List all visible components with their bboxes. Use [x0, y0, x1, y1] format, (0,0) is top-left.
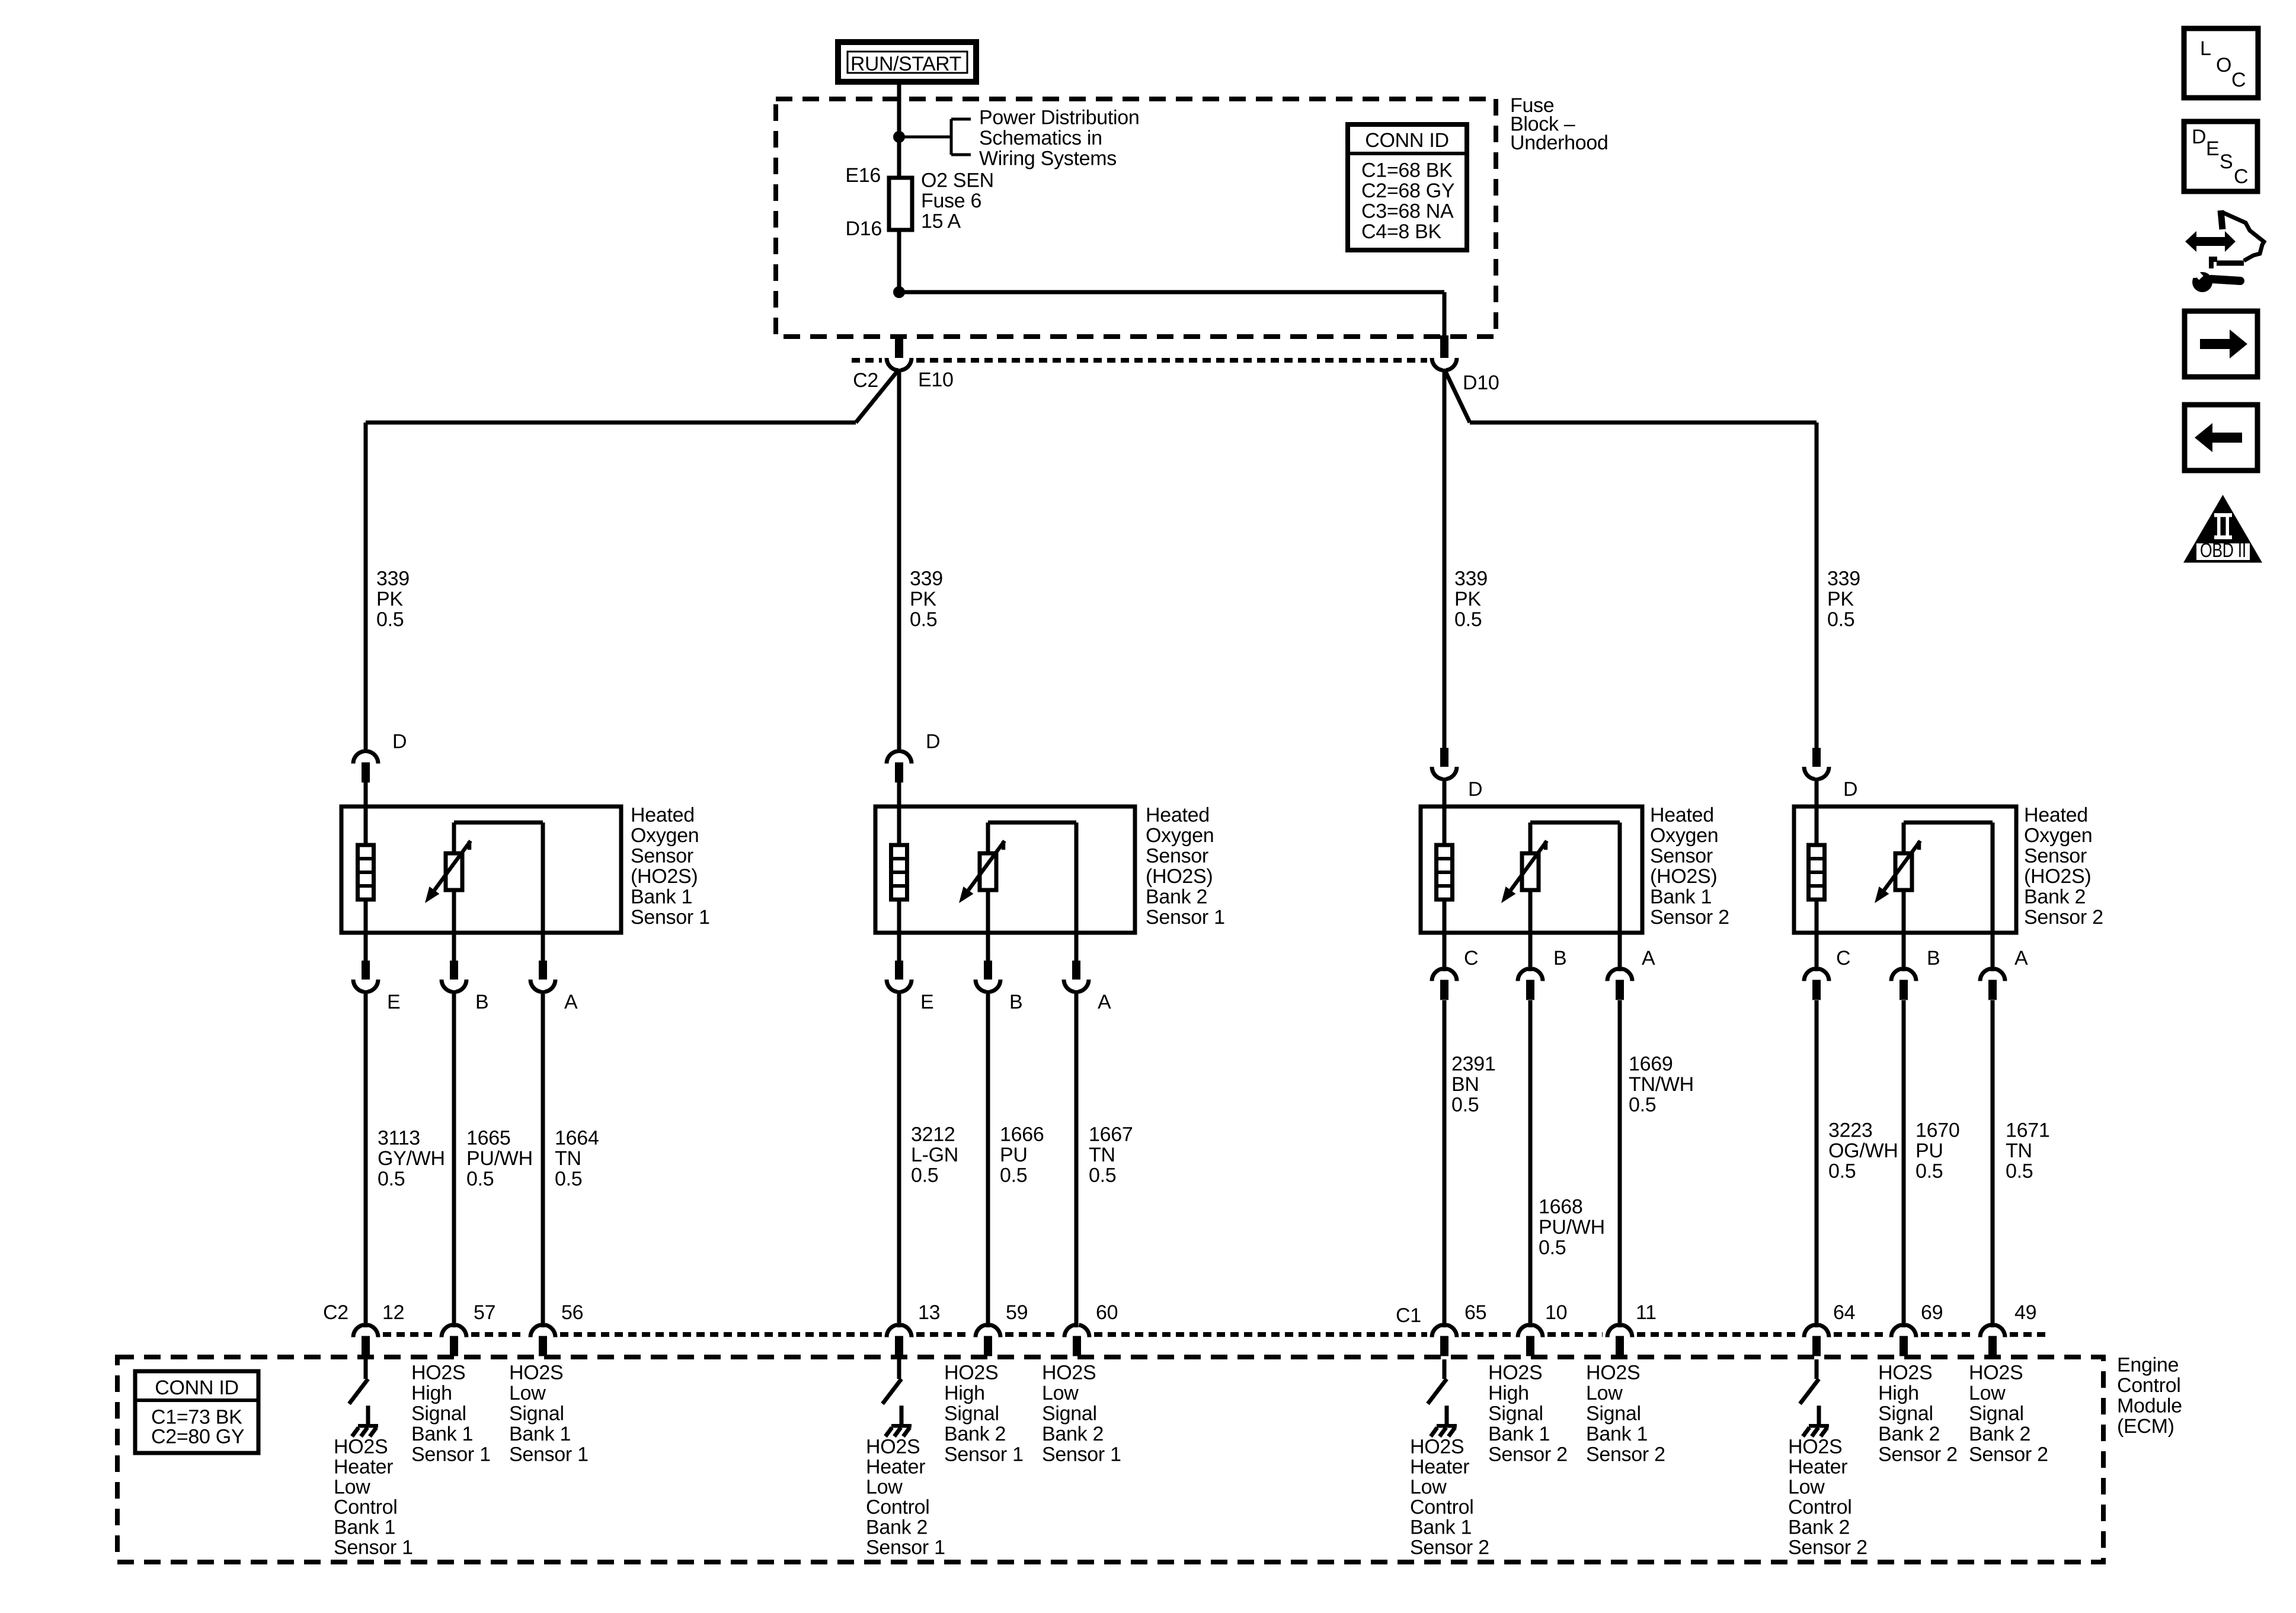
label B: [475, 991, 488, 1013]
svg-text:(HO2S): (HO2S): [631, 865, 698, 888]
svg-text:11: 11: [1636, 1301, 1657, 1324]
svg-text:HO2S: HO2S: [411, 1362, 465, 1384]
label C1: [1396, 1304, 1421, 1327]
svg-text:Sensor 2: Sensor 2: [1410, 1537, 1489, 1559]
svg-text:Bank 2: Bank 2: [1969, 1423, 2030, 1445]
svg-text:Oxygen: Oxygen: [2024, 824, 2092, 847]
connector pin E sensor1: [353, 933, 378, 1327]
svg-text:CONN ID: CONN ID: [155, 1377, 238, 1399]
svg-text:GY/WH: GY/WH: [378, 1147, 445, 1170]
connector pin A sensor3: [1607, 933, 1632, 1327]
svg-text:Sensor 1: Sensor 1: [1146, 906, 1225, 929]
label pin 49: [2014, 1301, 2036, 1324]
icon OBD II triangle: [2183, 495, 2262, 563]
svg-text:PK: PK: [1827, 588, 1854, 610]
svg-text:0.5: 0.5: [1827, 609, 1854, 631]
connector C2 dashed line: [852, 358, 1427, 363]
svg-text:Sensor 2: Sensor 2: [1650, 906, 1729, 929]
label HO2S High Signal Bank 1 Sensor 1: [411, 1362, 491, 1466]
svg-text:RUN/START: RUN/START: [850, 53, 961, 75]
svg-text:C2: C2: [853, 369, 878, 392]
connector pin A sensor1: [530, 933, 555, 1327]
svg-text:Signal: Signal: [1042, 1403, 1097, 1425]
svg-text:E16: E16: [845, 164, 881, 187]
label C2: [853, 369, 878, 392]
svg-text:0.5: 0.5: [1451, 1094, 1479, 1116]
variable sense element sensor3: [1522, 853, 1539, 890]
fuse F6 O2 SEN 15A symbol: [889, 178, 912, 230]
label E: [920, 991, 933, 1013]
svg-text:Heater: Heater: [334, 1456, 393, 1478]
svg-text:D: D: [1843, 778, 1857, 801]
heater low control switch pin 12: [349, 1359, 368, 1404]
label D16: [846, 217, 882, 240]
svg-text:High: High: [411, 1382, 452, 1404]
variable sense element sensor4: [1895, 853, 1912, 890]
svg-text:0.5: 0.5: [1629, 1094, 1656, 1116]
label pin 69: [1921, 1301, 1943, 1324]
wire fuse to E10: [897, 230, 901, 292]
svg-text:Sensor 1: Sensor 1: [411, 1444, 491, 1466]
label HO2S Heater Low Control Bank 2 Sensor 2: [1788, 1436, 1868, 1559]
svg-text:339: 339: [1454, 568, 1488, 590]
svg-text:Sensor 2: Sensor 2: [1488, 1444, 1568, 1466]
svg-text:339: 339: [910, 568, 943, 590]
svg-text:Sensor: Sensor: [2024, 845, 2087, 868]
svg-text:Bank 1: Bank 1: [1586, 1423, 1648, 1445]
junction node to D10 branch: [893, 286, 905, 298]
label D: [392, 731, 407, 753]
label pin 12: [382, 1301, 404, 1324]
svg-text:D10: D10: [1463, 372, 1499, 394]
heater element wire: [1443, 806, 1447, 933]
wire junction to fuse: [897, 137, 901, 181]
svg-text:TN/WH: TN/WH: [1629, 1073, 1694, 1096]
svg-text:CONN ID: CONN ID: [1365, 129, 1448, 152]
svg-text:(HO2S): (HO2S): [2024, 865, 2091, 888]
svg-text:Heater: Heater: [866, 1456, 925, 1478]
svg-text:Sensor 2: Sensor 2: [1878, 1444, 1958, 1466]
label B: [1553, 947, 1566, 969]
svg-text:Signal: Signal: [944, 1403, 999, 1425]
svg-text:Heated: Heated: [1146, 804, 1210, 827]
svg-text:0.5: 0.5: [1000, 1164, 1027, 1187]
heater element sensor2: [891, 845, 907, 900]
svg-text:Schematics in: Schematics in: [979, 127, 1102, 149]
connector pin A sensor4: [1980, 933, 2005, 1327]
svg-text:C: C: [1836, 947, 1850, 969]
wire D10 to sensor4 branch: [1444, 369, 1817, 749]
svg-text:1667: 1667: [1089, 1124, 1133, 1146]
heater element sensor1: [358, 845, 374, 900]
HO2S bank 2 sensor 2 box: [1794, 806, 2016, 933]
svg-text:Sensor 1: Sensor 1: [944, 1444, 1024, 1466]
wire E10 to sensor2: [897, 369, 901, 753]
svg-text:Bank 1: Bank 1: [1410, 1516, 1472, 1539]
svg-text:Signal: Signal: [1969, 1403, 2024, 1425]
svg-text:D16: D16: [846, 217, 882, 240]
svg-text:HO2S: HO2S: [1042, 1362, 1096, 1384]
svg-text:O2 SEN: O2 SEN: [921, 169, 994, 192]
wire D10 to sensor3: [1443, 369, 1447, 749]
svg-text:0.5: 0.5: [555, 1168, 582, 1190]
wire branch to D10: [899, 292, 1444, 335]
label Heated Oxygen Sensor (HO2S) Bank 1 Sensor 2: [1650, 804, 1729, 929]
svg-text:Signal: Signal: [509, 1403, 564, 1425]
wire label 1665 PU/WH: [466, 1127, 533, 1190]
svg-text:C2=68 GY: C2=68 GY: [1361, 180, 1454, 202]
label E10: [918, 369, 954, 391]
connector pin 10 ECM: [1518, 1325, 1543, 1356]
wire label 1668 PU/WH: [1539, 1196, 1605, 1259]
svg-text:Bank 2: Bank 2: [2024, 886, 2086, 908]
label HO2S Heater Low Control Bank 2 Sensor 1: [866, 1436, 945, 1559]
variable element arrow: [959, 841, 1005, 903]
heater low control switch pin 65: [1428, 1359, 1447, 1404]
variable sense element sensor1: [446, 853, 462, 890]
svg-text:0.5: 0.5: [910, 609, 937, 631]
sensing element wires: [1904, 822, 1993, 933]
label HO2S Heater Low Control Bank 1 Sensor 2: [1410, 1436, 1489, 1559]
svg-text:Sensor: Sensor: [1146, 845, 1208, 868]
variable element arrow: [1501, 841, 1547, 903]
label Engine Control Module (ECM): [2117, 1354, 2182, 1438]
connector pin 59 ECM: [976, 1325, 1000, 1356]
svg-text:Sensor 1: Sensor 1: [334, 1537, 413, 1559]
svg-text:HO2S: HO2S: [1788, 1436, 1842, 1458]
svg-text:Bank 2: Bank 2: [1146, 886, 1207, 908]
svg-text:OBD II: OBD II: [2200, 539, 2246, 562]
svg-text:3223: 3223: [1828, 1119, 1872, 1142]
label Heated Oxygen Sensor (HO2S) Bank 2 Sensor 2: [2024, 804, 2103, 929]
svg-text:Heated: Heated: [2024, 804, 2088, 827]
svg-text:0.5: 0.5: [1828, 1160, 1856, 1183]
label A: [1098, 991, 1111, 1013]
icon forward arrow box: [2185, 311, 2257, 377]
svg-text:60: 60: [1096, 1301, 1118, 1324]
svg-text:BN: BN: [1451, 1073, 1479, 1096]
svg-text:D: D: [926, 731, 940, 753]
svg-text:Heater: Heater: [1410, 1456, 1469, 1478]
svg-text:C1: C1: [1396, 1304, 1421, 1327]
heater low control switch pin 64: [1800, 1359, 1819, 1404]
svg-text:0.5: 0.5: [466, 1168, 494, 1190]
svg-text:B: B: [1553, 947, 1566, 969]
HO2S bank 1 sensor 1 box: [341, 806, 621, 933]
connector pin E10: [887, 335, 912, 370]
svg-text:OG/WH: OG/WH: [1828, 1140, 1898, 1162]
connector pin C sensor3: [1432, 933, 1457, 1327]
HO2S bank 2 sensor 1 box: [875, 806, 1135, 933]
svg-text:Low: Low: [1969, 1382, 2006, 1404]
svg-text:Low: Low: [509, 1382, 546, 1404]
svg-text:Oxygen: Oxygen: [631, 824, 699, 847]
variable element arrow: [1875, 841, 1920, 903]
ground: [1431, 1406, 1457, 1436]
ground: [352, 1406, 378, 1436]
svg-text:1671: 1671: [2006, 1119, 2049, 1142]
svg-text:339: 339: [376, 568, 410, 590]
svg-text:C: C: [2231, 69, 2246, 91]
icon service double-arrow wrench: [2185, 210, 2264, 292]
svg-text:1664: 1664: [555, 1127, 599, 1150]
label C: [1464, 947, 1478, 969]
svg-text:1670: 1670: [1916, 1119, 1959, 1142]
CONN ID table ECM: [135, 1371, 258, 1453]
svg-text:Heated: Heated: [631, 804, 695, 827]
svg-text:E10: E10: [918, 369, 954, 391]
label O2 SEN Fuse 6 15 A: [921, 169, 994, 233]
label HO2S Low Signal Bank 2 Sensor 1: [1042, 1362, 1121, 1466]
svg-text:Low: Low: [1788, 1476, 1825, 1499]
svg-text:HO2S: HO2S: [944, 1362, 998, 1384]
svg-text:Sensor 1: Sensor 1: [866, 1537, 945, 1559]
svg-text:TN: TN: [2006, 1140, 2032, 1162]
wire label 1669 TN/WH: [1629, 1053, 1694, 1116]
svg-text:Signal: Signal: [1488, 1403, 1543, 1425]
label D: [1468, 778, 1482, 801]
ECM dashed box: [117, 1357, 2103, 1562]
svg-text:Bank 1: Bank 1: [509, 1423, 571, 1445]
svg-text:Bank 2: Bank 2: [1788, 1516, 1850, 1539]
note Power Distribution Schematics in Wiring Systems: [979, 107, 1140, 170]
svg-text:Bank 1: Bank 1: [631, 886, 692, 908]
svg-text:PU: PU: [1916, 1140, 1943, 1162]
svg-text:339: 339: [1827, 568, 1860, 590]
svg-text:Heated: Heated: [1650, 804, 1714, 827]
svg-text:Bank 2: Bank 2: [1042, 1423, 1104, 1445]
svg-text:69: 69: [1921, 1301, 1943, 1324]
heater element wire: [1815, 806, 1819, 933]
connector pin 69 ECM: [1891, 1325, 1916, 1356]
connector pin B sensor1: [442, 933, 466, 1327]
wire label 339 PK 0.5: [1454, 568, 1488, 631]
connector pin 11 ECM: [1607, 1325, 1632, 1356]
label Heated Oxygen Sensor (HO2S) Bank 1 Sensor 1: [631, 804, 710, 929]
svg-text:Low: Low: [1042, 1382, 1079, 1404]
svg-text:(HO2S): (HO2S): [1650, 865, 1717, 888]
svg-text:B: B: [1927, 947, 1940, 969]
svg-text:Oxygen: Oxygen: [1650, 824, 1718, 847]
CONN ID table fuse block: [1348, 124, 1467, 250]
label pin 59: [1006, 1301, 1028, 1324]
svg-text:HO2S: HO2S: [1410, 1436, 1464, 1458]
fuse block - underhood dashed box: [776, 99, 1496, 337]
svg-text:Control: Control: [334, 1496, 398, 1519]
svg-text:PK: PK: [1454, 588, 1481, 610]
svg-text:10: 10: [1545, 1301, 1567, 1324]
icon LOC box: [2184, 28, 2258, 98]
svg-text:Control: Control: [1788, 1496, 1852, 1519]
svg-text:0.5: 0.5: [1916, 1160, 1943, 1183]
svg-text:A: A: [2014, 947, 2028, 969]
svg-text:Control: Control: [2117, 1374, 2181, 1397]
svg-text:HO2S: HO2S: [509, 1362, 563, 1384]
svg-text:2391: 2391: [1451, 1053, 1495, 1076]
svg-text:1665: 1665: [466, 1127, 510, 1150]
svg-text:1668: 1668: [1539, 1196, 1582, 1218]
reference arm to Power Distribution note: [899, 119, 971, 155]
junction node: [893, 131, 905, 143]
svg-text:A: A: [1098, 991, 1111, 1013]
svg-text:HO2S: HO2S: [1488, 1362, 1542, 1384]
label HO2S High Signal Bank 1 Sensor 2: [1488, 1362, 1568, 1466]
variable sense element sensor2: [980, 853, 996, 890]
sensing element wires: [454, 822, 543, 933]
svg-text:Bank 2: Bank 2: [1878, 1423, 1940, 1445]
svg-text:57: 57: [474, 1301, 495, 1324]
connector pin E sensor2: [887, 933, 912, 1327]
svg-text:C2=80 GY: C2=80 GY: [151, 1426, 244, 1448]
wire label 1671 TN: [2006, 1119, 2049, 1183]
svg-text:C: C: [1464, 947, 1478, 969]
svg-text:PU: PU: [1000, 1144, 1028, 1166]
svg-text:Low: Low: [866, 1476, 903, 1499]
connector pin 60 ECM: [1064, 1325, 1089, 1356]
svg-text:S: S: [2220, 151, 2233, 173]
label pin 65: [1464, 1301, 1486, 1324]
sensing element wires: [988, 822, 1076, 933]
svg-text:C: C: [2234, 165, 2248, 188]
svg-text:Sensor 2: Sensor 2: [1788, 1537, 1868, 1559]
label Heated Oxygen Sensor (HO2S) Bank 2 Sensor 1: [1146, 804, 1225, 929]
connector pin C sensor4: [1804, 933, 1829, 1327]
svg-text:Heater: Heater: [1788, 1456, 1847, 1478]
svg-text:Module: Module: [2117, 1395, 2182, 1417]
label Fuse Block - Underhood: [1510, 94, 1609, 154]
connector pin D sensor3: [1432, 748, 1457, 806]
svg-text:(ECM): (ECM): [2117, 1415, 2175, 1438]
label C: [1836, 947, 1850, 969]
connector pin B sensor3: [1518, 933, 1543, 1327]
svg-text:D: D: [1468, 778, 1482, 801]
svg-text:HO2S: HO2S: [866, 1436, 920, 1458]
svg-text:O: O: [2216, 54, 2231, 76]
svg-text:0.5: 0.5: [2006, 1160, 2033, 1183]
wire label 1664 TN: [555, 1127, 599, 1190]
svg-text:Low: Low: [334, 1476, 370, 1499]
svg-text:Wiring Systems: Wiring Systems: [979, 148, 1117, 170]
heater element wire: [364, 806, 368, 933]
connector pin 12 ECM: [353, 1325, 378, 1356]
wire RUN/START to junction: [897, 81, 901, 137]
svg-text:Sensor 1: Sensor 1: [631, 906, 710, 929]
svg-text:Signal: Signal: [411, 1403, 466, 1425]
heater element sensor4: [1809, 845, 1825, 900]
ground: [1803, 1406, 1829, 1436]
wire label 1667 TN: [1089, 1124, 1133, 1187]
svg-text:56: 56: [561, 1301, 583, 1324]
wire label 339 PK 0.5: [1827, 568, 1860, 631]
svg-text:Sensor 2: Sensor 2: [1586, 1444, 1665, 1466]
connector pin B sensor4: [1891, 933, 1916, 1327]
svg-text:0.5: 0.5: [1539, 1237, 1566, 1259]
HO2S bank 1 sensor 2 box: [1421, 806, 1642, 933]
svg-text:Signal: Signal: [1878, 1403, 1933, 1425]
svg-text:C3=68 NA: C3=68 NA: [1361, 200, 1454, 223]
svg-text:Sensor 1: Sensor 1: [509, 1444, 589, 1466]
label HO2S Low Signal Bank 1 Sensor 1: [509, 1362, 589, 1466]
svg-text:C4=8 BK: C4=8 BK: [1361, 220, 1442, 243]
label pin 60: [1096, 1301, 1118, 1324]
svg-text:C1=68 BK: C1=68 BK: [1361, 159, 1453, 182]
connector pin B sensor2: [976, 933, 1000, 1327]
svg-text:15 A: 15 A: [921, 210, 961, 233]
label D: [1843, 778, 1857, 801]
connector pin D10: [1432, 335, 1457, 370]
svg-text:L: L: [2200, 37, 2211, 60]
sensing element wires: [1530, 822, 1620, 933]
svg-text:Sensor 1: Sensor 1: [1042, 1444, 1121, 1466]
svg-text:HO2S: HO2S: [1586, 1362, 1640, 1384]
label HO2S Low Signal Bank 1 Sensor 2: [1586, 1362, 1665, 1466]
connector pin D sensor2: [887, 751, 912, 806]
label A: [1642, 947, 1655, 969]
svg-text:Sensor: Sensor: [631, 845, 693, 868]
svg-text:0.5: 0.5: [1454, 609, 1482, 631]
svg-text:High: High: [1878, 1382, 1919, 1404]
svg-text:0.5: 0.5: [378, 1168, 405, 1190]
svg-text:Signal: Signal: [1586, 1403, 1641, 1425]
svg-text:E: E: [387, 991, 400, 1013]
svg-text:(HO2S): (HO2S): [1146, 865, 1213, 888]
svg-text:Bank 1: Bank 1: [334, 1516, 395, 1539]
svg-text:PK: PK: [910, 588, 936, 610]
svg-text:3212: 3212: [911, 1124, 955, 1146]
svg-text:Oxygen: Oxygen: [1146, 824, 1214, 847]
svg-text:Bank 2: Bank 2: [866, 1516, 928, 1539]
svg-text:PU/WH: PU/WH: [466, 1147, 533, 1170]
wire label 3113 GY/WH: [378, 1127, 445, 1190]
ground: [885, 1406, 912, 1436]
label D10: [1463, 372, 1499, 394]
label E16: [845, 164, 881, 187]
heater element wire: [897, 806, 901, 933]
RUN/START power feed box: [838, 42, 976, 82]
svg-text:A: A: [564, 991, 578, 1013]
svg-text:HO2S: HO2S: [334, 1436, 388, 1458]
wire label 339 PK 0.5: [376, 568, 410, 631]
svg-text:1666: 1666: [1000, 1124, 1044, 1146]
svg-text:1669: 1669: [1629, 1053, 1673, 1076]
svg-text:59: 59: [1006, 1301, 1028, 1324]
label HO2S High Signal Bank 2 Sensor 1: [944, 1362, 1024, 1466]
label HO2S Heater Low Control Bank 1 Sensor 1: [334, 1436, 413, 1559]
svg-text:49: 49: [2014, 1301, 2036, 1324]
label C2: [323, 1301, 348, 1324]
label pin 57: [474, 1301, 495, 1324]
wire label 2391 BN: [1451, 1053, 1495, 1116]
svg-text:Power Distribution: Power Distribution: [979, 107, 1140, 129]
icon DESC box: [2184, 121, 2257, 191]
label D: [926, 731, 940, 753]
variable element arrow: [425, 841, 471, 903]
wire label 1666 PU: [1000, 1124, 1044, 1187]
svg-text:Bank 1: Bank 1: [411, 1423, 473, 1445]
wire E10 to sensor1 branch: [366, 369, 899, 753]
svg-text:65: 65: [1464, 1301, 1486, 1324]
svg-text:Engine: Engine: [2117, 1354, 2179, 1377]
svg-text:13: 13: [918, 1301, 940, 1324]
wire label 339 PK 0.5: [910, 568, 943, 631]
svg-text:3113: 3113: [378, 1127, 420, 1150]
label A: [2014, 947, 2028, 969]
svg-text:L-GN: L-GN: [911, 1144, 958, 1166]
label B: [1009, 991, 1022, 1013]
svg-text:Fuse 6: Fuse 6: [921, 190, 981, 212]
svg-text:A: A: [1642, 947, 1655, 969]
connector pin 13 ECM: [887, 1325, 912, 1356]
